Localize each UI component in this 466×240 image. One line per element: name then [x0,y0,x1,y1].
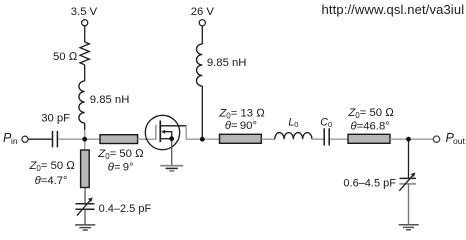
wire TL4 to node C [390,138,409,140]
wire TL3 to L0 [261,138,275,140]
supply terminal 26 V [199,20,205,26]
wire inductor to node A [84,123,86,130]
svg-text:θ= 9°: θ= 9° [108,161,134,173]
transistor Q1 body circle [145,115,179,149]
svg-text:3.5 V: 3.5 V [71,6,98,18]
svg-text:θ=4.7°: θ=4.7° [35,175,68,187]
capacitor C0 [323,128,325,145]
wire inductor L2 to node B [201,86,203,139]
svg-text:Z0= 50 Ω: Z0= 50 Ω [29,160,76,173]
wire terminal to inductor L2 [201,26,203,44]
transmission line TL3 Z0=13 theta=90 [220,134,262,143]
wire resistor to inductor [84,65,86,81]
svg-text:Z0= 13 Ω: Z0= 13 Ω [218,108,265,121]
wire C0 to TL4 [330,138,348,140]
resistor 50 ohm [80,42,89,65]
wire source to ground [171,139,173,166]
svg-text:26 V: 26 V [191,6,215,18]
trimmer capacitor 0.6-4.5 pF [400,177,417,179]
transistor Q1 body arrow [165,132,172,139]
transistor Q1 drain stub [160,125,186,127]
svg-text:in: in [11,136,18,146]
svg-text:http://www.qsl.net/va3iul: http://www.qsl.net/va3iul [322,2,465,17]
capacitor 30 pF [52,131,54,147]
wire node A to shunt stub [84,139,86,150]
transistor Q1 source junction dot [169,136,174,141]
svg-text:0.6–4.5 pF: 0.6–4.5 pF [343,178,396,190]
input terminal Pin [22,136,28,142]
shunt stub TL2 Z0=50 theta=4.7 [81,150,90,188]
transmission line TL4 Z0=50 theta=46.8 [348,134,390,143]
svg-text:θ=46.8°: θ=46.8° [351,121,390,133]
svg-text:9.85 nH: 9.85 nH [207,57,247,69]
wire stub to trimmer [84,188,86,204]
ground G1 [75,224,95,226]
wire L0 to C0 [312,138,324,140]
svg-text:0.4–2.5 pF: 0.4–2.5 pF [99,203,152,215]
wire trimmer to ground [84,209,86,224]
wire node B to TL3 [202,138,219,140]
ground G3 [399,224,419,226]
wire node A to TL1 [85,138,100,140]
svg-text:30 pF: 30 pF [41,112,70,124]
supply terminal 3.5 V [82,20,88,26]
inductor L0 [275,133,312,140]
wire node C to Pout [409,138,434,140]
output terminal Pout [433,136,439,142]
transistor Q1 channel bar [159,121,161,143]
ground G2 [160,165,183,167]
svg-text:50 Ω: 50 Ω [53,51,78,63]
transmission line TL1 Z0=50 theta=9 [100,135,138,144]
svg-text:θ= 90°: θ= 90° [225,120,257,132]
node B junction dot [200,137,205,142]
wire node C to trimmer 2 [408,139,410,178]
inductor L2 9.85 nH [196,44,202,86]
svg-text:9.85 nH: 9.85 nH [90,94,130,106]
wire Pin to capacitor [28,138,52,140]
svg-text:out: out [453,136,465,146]
node A junction dot [82,137,87,142]
inductor L1 9.85 nH [79,81,85,123]
wire TL1 to gate [138,138,156,140]
wire terminal to resistor [84,26,86,42]
svg-text:Z0= 50 Ω: Z0= 50 Ω [347,107,394,120]
svg-text:Z0= 50 Ω: Z0= 50 Ω [97,148,144,161]
wire trimmer 2 to ground [408,184,410,225]
trimmer capacitor 0.4-2.5 pF [76,203,95,205]
transistor Q1 gate bar [155,125,157,140]
transistor Q1 source stub [160,138,171,140]
node C junction dot [406,137,411,142]
wire drain to node B [186,126,202,139]
wire capacitor to node A [58,138,84,140]
